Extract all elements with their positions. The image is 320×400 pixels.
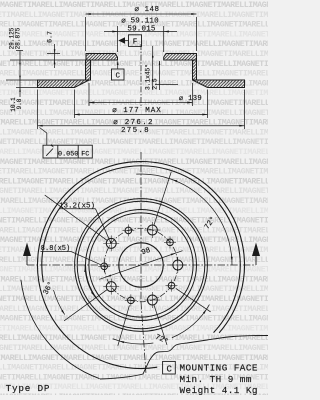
svg-text:0.050: 0.050 [58, 151, 78, 159]
svg-text:MAGNETIMARELLIMAGNETIMARELLIMA: MAGNETIMARELLIMAGNETIMARELLIMAGNETIMAREL… [0, 148, 268, 157]
svg-text:MAGNETIMARELLIMAGNETIMARELLIMA: MAGNETIMARELLIMAGNETIMARELLIMAGNETIMAREL… [0, 168, 268, 177]
svg-text:MAGNETIMARELLIMAGNETIMARELLIMA: MAGNETIMARELLIMAGNETIMARELLIMAGNETIMAREL… [0, 138, 268, 147]
svg-text:Weight 4.1 Kg: Weight 4.1 Kg [180, 385, 258, 395]
svg-text:3.1x45°: 3.1x45° [144, 64, 151, 90]
svg-text:MAGNETIMARELLIMAGNETIMARELLIMA: MAGNETIMARELLIMAGNETIMARELLIMAGNETIMAREL… [0, 266, 268, 275]
svg-text:MOUNTING FACE: MOUNTING FACE [180, 363, 258, 374]
svg-text:MAGNETIMARELLIMAGNETIMARELLIMA: MAGNETIMARELLIMAGNETIMARELLIMAGNETIMAREL… [0, 70, 268, 79]
svg-text:⌀ 148: ⌀ 148 [134, 6, 159, 14]
svg-text:MAGNETIMARELLIMAGNETIMARELLIMA: MAGNETIMARELLIMAGNETIMARELLIMAGNETIMAREL… [0, 275, 268, 284]
svg-text:MAGNETIMARELLIMAGNETIMARELLIMA: MAGNETIMARELLIMAGNETIMARELLIMAGNETIMAREL… [0, 158, 268, 167]
svg-text:⌀ 177 MAX: ⌀ 177 MAX [112, 107, 162, 115]
svg-text:275.8: 275.8 [121, 127, 150, 135]
svg-text:FC: FC [81, 151, 89, 159]
svg-text:C: C [166, 365, 172, 375]
svg-text:⌀ 139: ⌀ 139 [179, 95, 202, 103]
svg-text:28.875: 28.875 [15, 27, 22, 49]
svg-text:Type DP: Type DP [6, 383, 51, 394]
svg-text:C: C [115, 72, 120, 80]
svg-text:MAGNETIMARELLIMAGNETIMARELLIMA: MAGNETIMARELLIMAGNETIMARELLIMAGNETIMAREL… [0, 60, 268, 69]
svg-text:8.8(x5): 8.8(x5) [41, 245, 70, 253]
svg-text:MAGNETIMARELLIMAGNETIMARELLIMA: MAGNETIMARELLIMAGNETIMARELLIMAGNETIMAREL… [0, 89, 268, 98]
svg-text:MAGNETIMARELLIMAGNETIMARELLIMA: MAGNETIMARELLIMAGNETIMARELLIMAGNETIMAREL… [0, 344, 268, 353]
svg-text:MAGNETIMARELLIMAGNETIMARELLIMA: MAGNETIMARELLIMAGNETIMARELLIMAGNETIMAREL… [0, 334, 268, 343]
svg-text:MAGNETIMARELLIMAGNETIMARELLIMA: MAGNETIMARELLIMAGNETIMARELLIMAGNETIMAREL… [0, 187, 268, 196]
svg-text:MAGNETIMARELLIMAGNETIMARELLIMA: MAGNETIMARELLIMAGNETIMARELLIMAGNETIMAREL… [0, 226, 268, 235]
svg-text:MAGNETIMARELLIMAGNETIMARELLIMA: MAGNETIMARELLIMAGNETIMARELLIMAGNETIMAREL… [0, 177, 268, 186]
svg-text:6.7: 6.7 [47, 31, 54, 43]
svg-text:MAGNETIMARELLIMAGNETIMARELLIMA: MAGNETIMARELLIMAGNETIMARELLIMAGNETIMAREL… [0, 50, 268, 59]
svg-text:13.2(x5): 13.2(x5) [59, 202, 95, 210]
svg-text:MAGNETIMARELLIMAGNETIMARELLIMA: MAGNETIMARELLIMAGNETIMARELLIMAGNETIMAREL… [0, 354, 268, 363]
svg-text:Min. TH 9 mm: Min. TH 9 mm [180, 374, 252, 385]
svg-text:F: F [133, 39, 138, 47]
svg-text:59.015: 59.015 [127, 25, 156, 33]
svg-text:9.8: 9.8 [16, 98, 23, 109]
svg-text:MAGNETIMARELLIMAGNETIMARELLIMA: MAGNETIMARELLIMAGNETIMARELLIMAGNETIMAREL… [0, 256, 268, 265]
